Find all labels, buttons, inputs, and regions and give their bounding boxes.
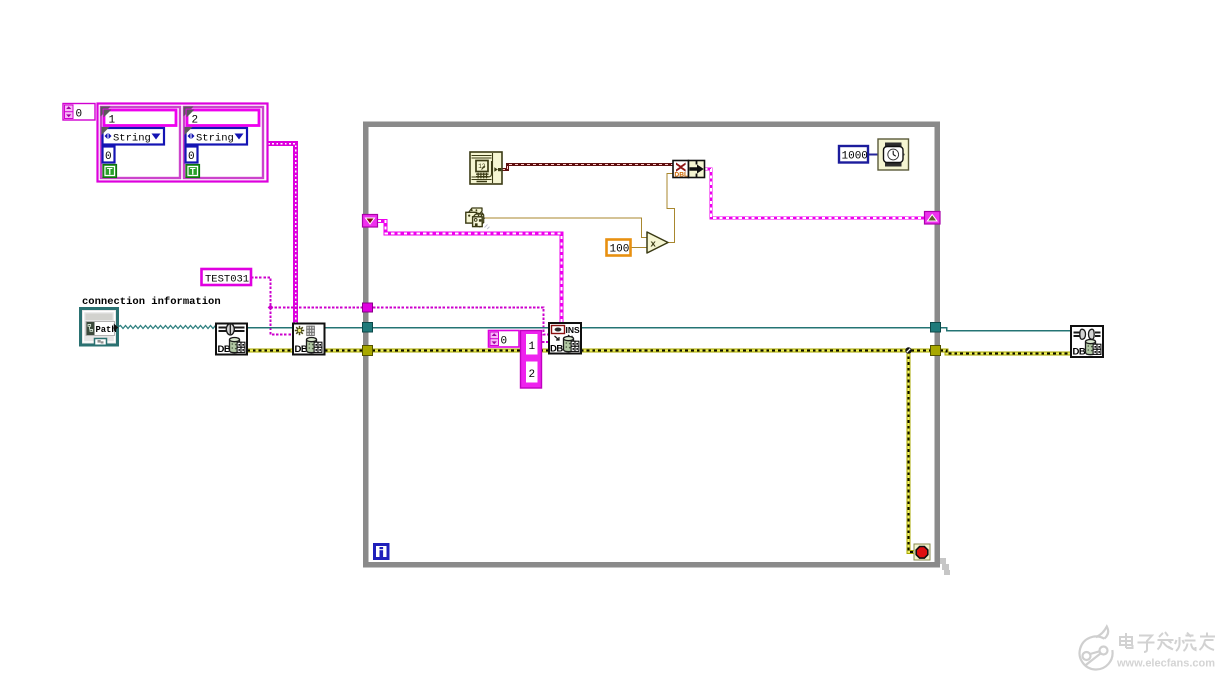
- node: DB Tools Close Connection: [1071, 326, 1103, 358]
- node: to variant: [689, 161, 705, 178]
- node: Wait (ms): [878, 139, 909, 170]
- string element "1": [104, 110, 176, 126]
- junction on error wire: [905, 347, 911, 353]
- svg-text:connection information: connection information: [82, 296, 221, 308]
- wire: datetime string (maroon) to DBL node: [502, 165, 673, 170]
- svg-text:T: T: [190, 167, 196, 177]
- tunnel: string (left wall): [363, 303, 373, 312]
- svg-text:DB: DB: [550, 344, 563, 355]
- string element "2": [187, 110, 259, 126]
- numeric element "0": [103, 147, 115, 163]
- shift register left: [363, 215, 378, 228]
- tunnel: connection ref (left wall): [363, 323, 373, 333]
- constant: columns array of strings ("1","2"): [521, 331, 542, 389]
- watermark logo: [1080, 627, 1113, 670]
- svg-text:1: 1: [109, 115, 116, 127]
- boolean element "T": [103, 165, 117, 178]
- wire: variant to right shift register: [705, 169, 925, 218]
- constant: 100: [607, 240, 631, 256]
- loop iteration terminal [i]: [375, 545, 389, 559]
- tunnel: connection ref (right wall): [931, 323, 941, 333]
- svg-text:String: String: [196, 133, 234, 145]
- svg-text:x: x: [651, 239, 657, 250]
- svg-text:2: 2: [192, 115, 199, 127]
- wire: error cluster inside loop to right tunnel: [372, 348, 931, 352]
- wire: error cluster right tunnel to DB close: [940, 351, 1071, 354]
- constant: 1000: [839, 146, 868, 163]
- svg-text:1000: 1000: [842, 151, 868, 163]
- wire: error cluster DB-open to exec node: [247, 348, 293, 352]
- constant: array of parameter clusters: [98, 104, 268, 182]
- control: columns array index: [489, 331, 520, 348]
- cluster element 2: [184, 107, 264, 179]
- svg-text:100: 100: [610, 244, 630, 256]
- node: Get Date/Time String: [470, 152, 502, 184]
- wire: 100 constant to multiply: [631, 247, 647, 249]
- svg-text:DB: DB: [1073, 347, 1086, 358]
- svg-text:Path: Path: [96, 325, 117, 335]
- wire: connection ref DB-open to exec node: [247, 327, 293, 329]
- wire: connection ref right tunnel to DB close: [940, 328, 1071, 331]
- svg-text:String: String: [113, 133, 151, 145]
- 友: [1200, 633, 1216, 651]
- loop condition terminal (stop if true): [914, 544, 930, 560]
- 发: [1158, 632, 1174, 640]
- constant: TEST031 string: [202, 269, 252, 286]
- node: DB Tools Insert Data: [549, 323, 581, 355]
- watermark text: 电子发烧友 (drawn strokes): [1120, 632, 1215, 652]
- node: DB Tools Open Connection: [216, 324, 247, 356]
- control: connection information path: [81, 309, 119, 346]
- wire: error branch down to loop condition terminal: [909, 351, 915, 553]
- svg-text:2: 2: [529, 369, 536, 381]
- svg-text:0: 0: [76, 109, 83, 121]
- shift register right: [925, 212, 941, 225]
- svg-text:1: 1: [529, 341, 536, 353]
- wire: multiply output up to DBL conversion: [667, 174, 675, 243]
- wire: error cluster exec node to left tunnel: [325, 348, 364, 352]
- svg-text:TEST031: TEST031: [205, 274, 249, 286]
- wire: TEST031 string to exec-query left input: [251, 278, 293, 335]
- wire: path (zigzag) from path control to DB open node: [118, 326, 216, 329]
- tunnel: error (right wall): [931, 346, 941, 356]
- ring element "String": [103, 128, 165, 145]
- wire: array of clusters from array constant to exec-query node top: [268, 144, 296, 324]
- svg-text:0: 0: [188, 151, 195, 163]
- function: multiply: [647, 232, 668, 253]
- control: array index for parameter array: [63, 104, 95, 121]
- wire: random number to multiply: [483, 218, 647, 238]
- cluster element 1: [101, 107, 181, 179]
- svg-text:www.elecfans.com: www.elecfans.com: [1116, 658, 1215, 670]
- node: to-DBL conversion: [673, 161, 689, 179]
- svg-text:0: 0: [501, 336, 508, 348]
- wire: columns array constant to insert-data node: [542, 341, 549, 343]
- 子: [1139, 636, 1152, 653]
- svg-text:DBL: DBL: [674, 171, 688, 178]
- while loop border: [366, 124, 950, 575]
- junction on TEST031 wire: [268, 305, 274, 311]
- svg-text:INS: INS: [566, 325, 581, 335]
- svg-text:T: T: [107, 167, 113, 177]
- wire: connection ref inside loop: [372, 327, 931, 329]
- wire: left shift register to insert-data node top: [378, 221, 562, 323]
- numeric element "0": [186, 147, 198, 163]
- wire: TEST031 string branch through left tunnel to insert-data node: [271, 308, 550, 335]
- wire: 1000 to wait ms: [868, 154, 878, 156]
- ring element "String": [186, 128, 248, 145]
- boolean element "T": [186, 165, 200, 178]
- 烧: [1175, 637, 1184, 651]
- 电: [1120, 637, 1132, 645]
- svg-text:0: 0: [105, 151, 112, 163]
- node: random number dice: [466, 208, 490, 229]
- node: DB Tools Execute Query: [293, 324, 325, 356]
- tunnel: error (left wall): [363, 346, 373, 356]
- wire: connection ref exec node to left tunnel: [325, 327, 364, 329]
